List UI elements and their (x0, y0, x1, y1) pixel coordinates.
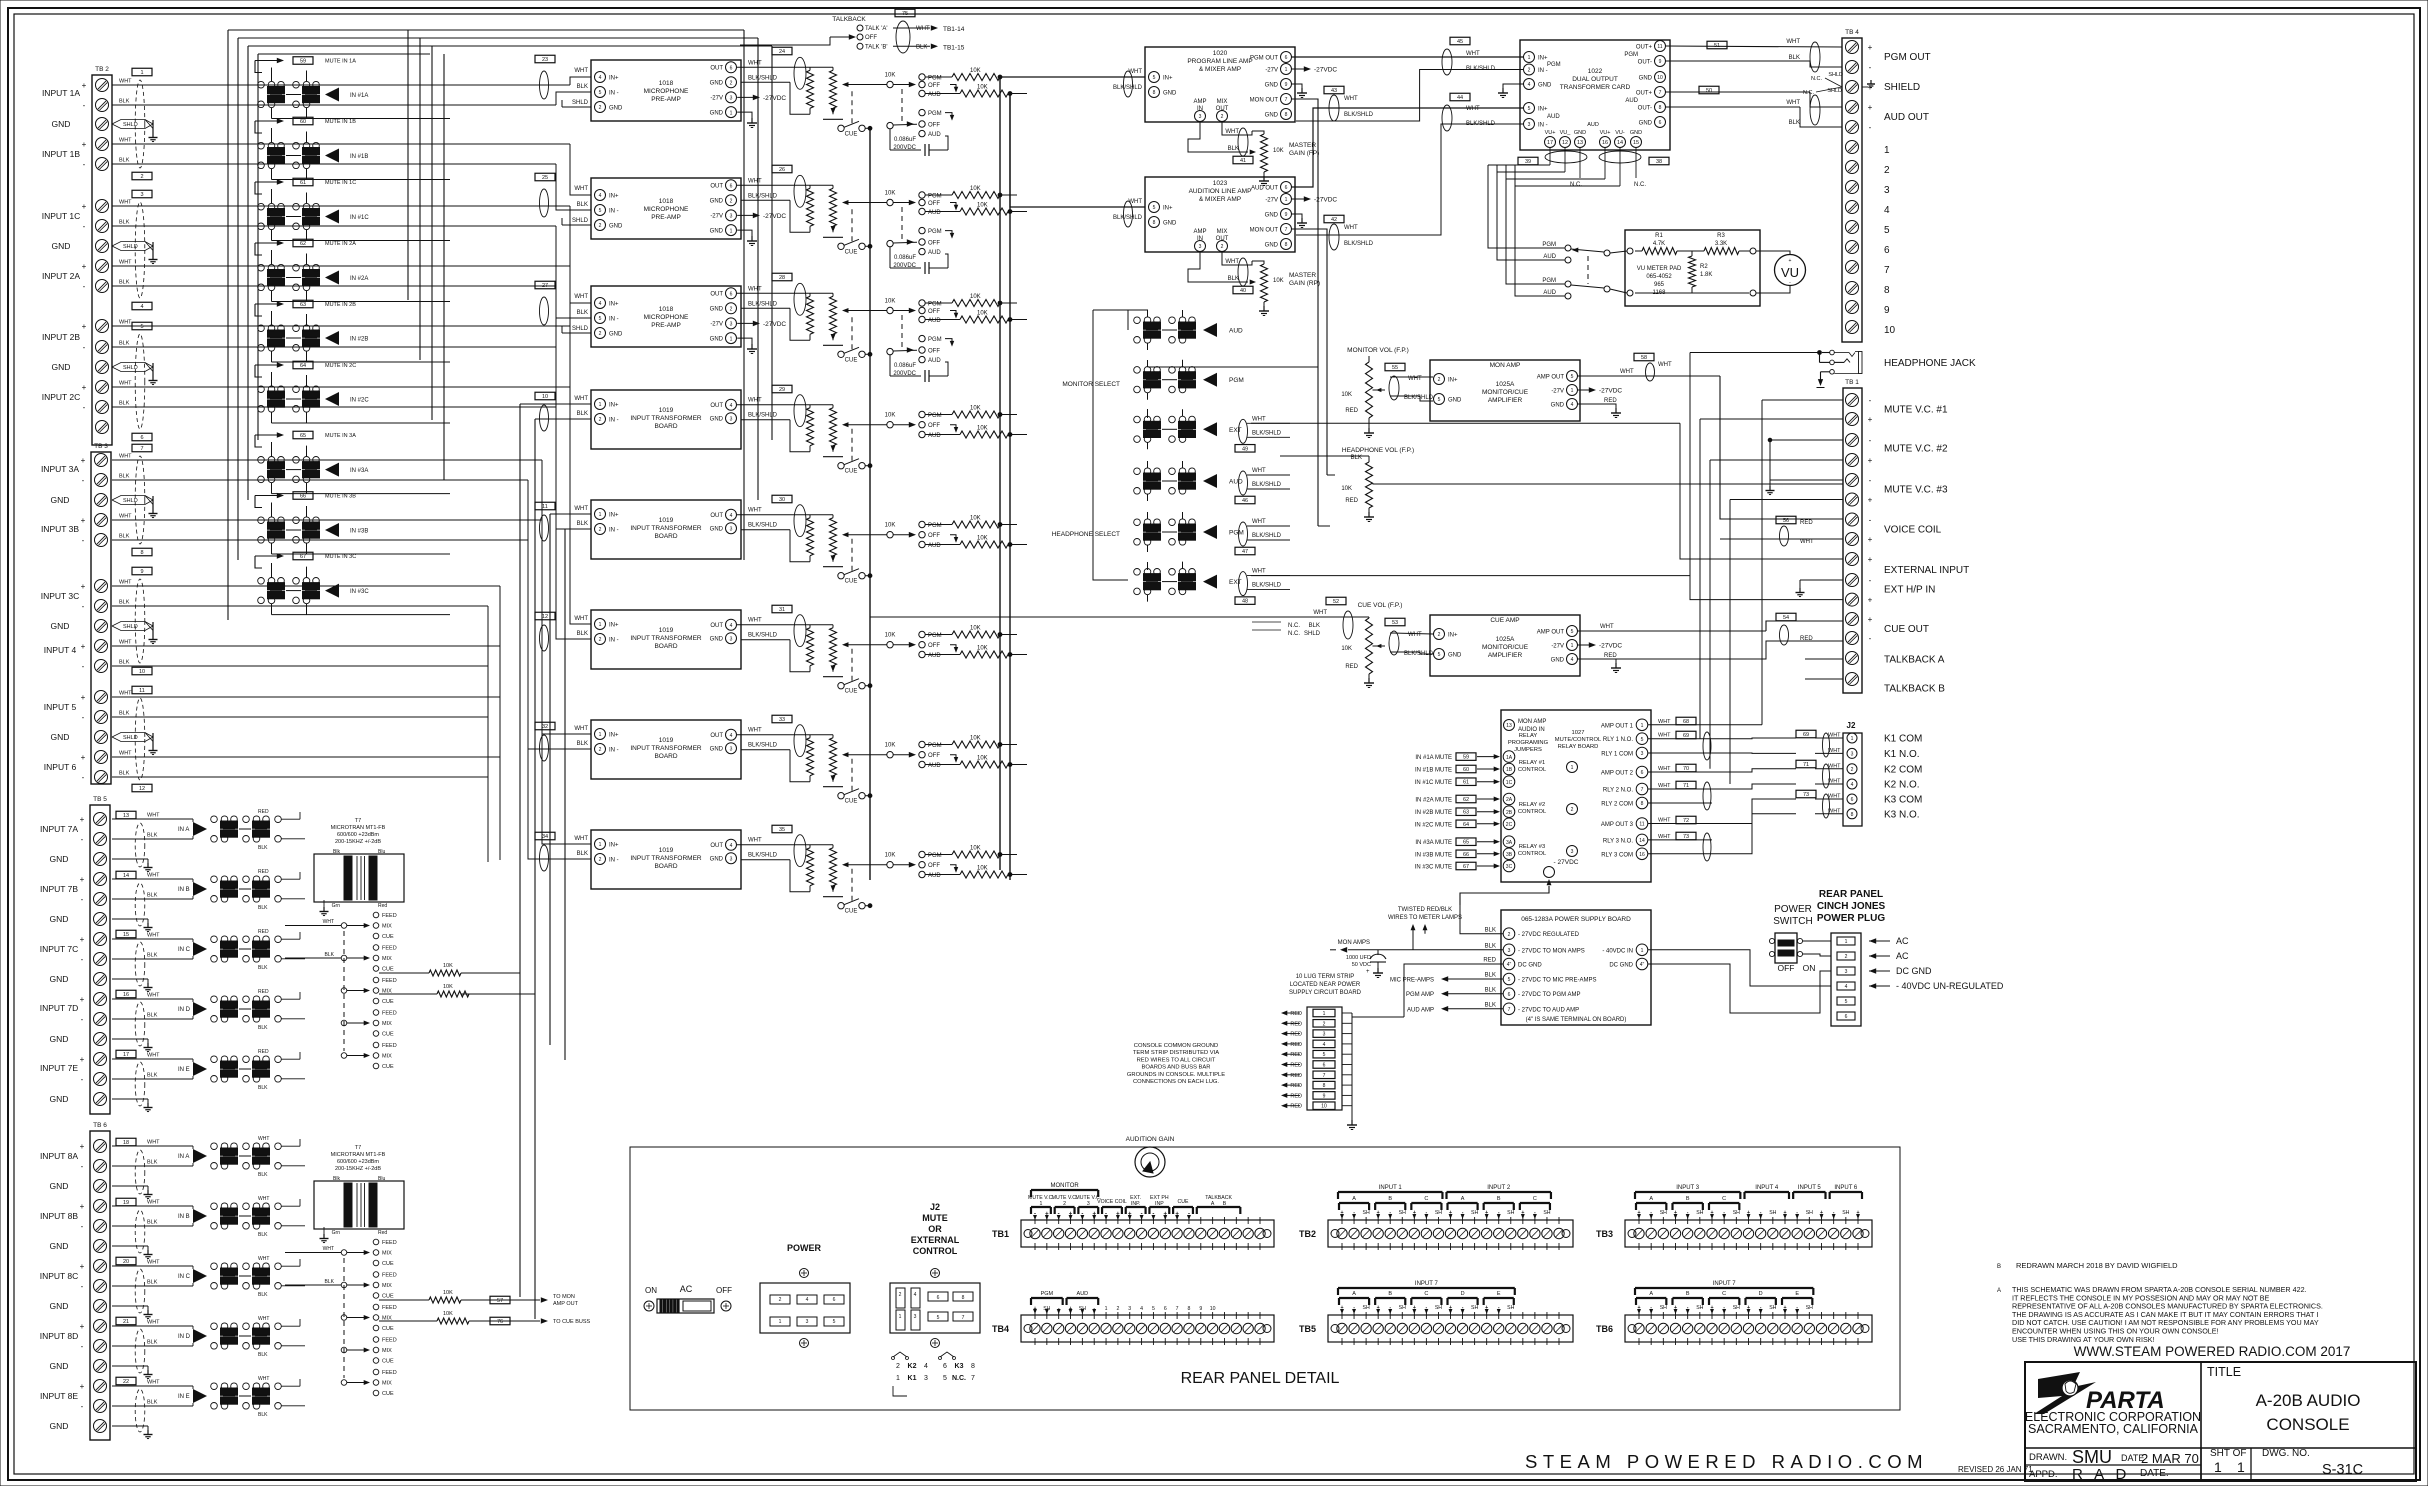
svg-text:5: 5 (599, 90, 602, 96)
svg-text:-: - (83, 403, 86, 412)
svg-text:8: 8 (962, 1295, 965, 1301)
svg-text:BLK: BLK (147, 1340, 158, 1346)
VU meter input selector (1542, 242, 1627, 299)
svg-text:WHT: WHT (748, 728, 762, 734)
svg-text:RED: RED (1290, 1093, 1302, 1099)
svg-text:REAR PANEL DETAIL: REAR PANEL DETAIL (1181, 1370, 1340, 1387)
svg-text:IN+: IN+ (1538, 56, 1548, 62)
mix resistor 10K PGM 31 (925, 626, 1017, 639)
svg-text:PGM: PGM (928, 337, 942, 343)
svg-text:4: 4 (924, 1363, 928, 1370)
svg-text:13: 13 (123, 813, 129, 819)
channel fader pots 24 (737, 67, 887, 119)
svg-text:MICROTRAN MT1-FB: MICROTRAN MT1-FB (331, 1152, 386, 1158)
svg-text:Grn: Grn (332, 903, 341, 909)
title text (2207, 1365, 2360, 1434)
input pad IN C (input 8) (112, 1256, 305, 1298)
svg-text:TB 6: TB 6 (93, 1122, 107, 1129)
svg-text:51: 51 (1714, 43, 1720, 49)
svg-text:-27VDC: -27VDC (1599, 643, 1622, 650)
svg-text:+: + (1868, 43, 1873, 52)
svg-text:10K: 10K (885, 413, 896, 419)
svg-text:75: 75 (902, 11, 908, 17)
svg-text:1B: 1B (1506, 767, 1513, 773)
svg-text:2: 2 (599, 747, 602, 753)
svg-text:17: 17 (123, 1052, 129, 1058)
microphone pre-amp 1018 #1 (572, 60, 741, 121)
svg-text:GAIN (FP): GAIN (FP) (1289, 150, 1319, 157)
svg-text:IN+: IN+ (609, 403, 619, 409)
svg-text:GND: GND (710, 81, 724, 87)
svg-text:BLK: BLK (147, 953, 158, 959)
svg-text:MIC PRE-AMPS: MIC PRE-AMPS (1390, 978, 1434, 984)
svg-text:BLK/SHLD: BLK/SHLD (1252, 533, 1282, 539)
svg-text:5: 5 (1438, 397, 1441, 403)
svg-text:-: - (1869, 396, 1872, 405)
selector switch PGM/OFF/AUD 28 (885, 299, 959, 325)
svg-text:TB 3: TB 3 (94, 443, 108, 450)
svg-text:N.C.: N.C. (1570, 182, 1582, 188)
svg-text:K3 N.O.: K3 N.O. (1884, 809, 1920, 820)
svg-text:CUE: CUE (845, 131, 858, 137)
svg-text:-: - (81, 1222, 84, 1231)
svg-text:6: 6 (1285, 185, 1288, 191)
svg-text:53: 53 (1392, 620, 1398, 626)
svg-text:WHT: WHT (574, 836, 588, 842)
svg-text:AUD: AUD (928, 210, 941, 216)
svg-text:AUD: AUD (928, 653, 941, 659)
svg-text:RELAY #2: RELAY #2 (1519, 802, 1546, 808)
mix resistor 10K PGM 24 (925, 68, 1017, 81)
svg-text:BLK: BLK (577, 411, 588, 417)
voice coil cable 56 (1720, 516, 1843, 546)
svg-text:- 27VDC REGULATED: - 27VDC REGULATED (1518, 932, 1580, 938)
input cable boxes for amp blocks (535, 55, 555, 871)
svg-text:TRANSFORMER CARD: TRANSFORMER CARD (1560, 84, 1631, 91)
svg-text:14: 14 (1639, 838, 1645, 844)
svg-text:3: 3 (730, 746, 733, 752)
svg-text:OUT: OUT (710, 843, 723, 849)
svg-text:INPUT 3: INPUT 3 (1676, 1185, 1700, 1191)
svg-text:1: 1 (1571, 643, 1574, 649)
svg-text:68: 68 (1683, 719, 1689, 725)
pre-amp #2 -27VDC feed (737, 213, 786, 220)
svg-text:4: 4 (914, 1292, 917, 1298)
svg-text:5: 5 (1571, 629, 1574, 635)
audition gain knob (1126, 1136, 1175, 1177)
svg-text:IN+: IN+ (1448, 378, 1458, 384)
mix bus resistors 10K (input 8) (379, 1290, 535, 1324)
svg-text:CUE: CUE (845, 909, 858, 915)
svg-text:OFF: OFF (928, 863, 940, 869)
svg-text:8: 8 (1851, 812, 1854, 818)
svg-text:GND: GND (1448, 398, 1462, 404)
svg-text:+: + (81, 582, 86, 591)
svg-text:TB 1: TB 1 (1845, 379, 1859, 386)
svg-text:CUE: CUE (845, 579, 858, 585)
svg-text:VU-: VU- (1615, 130, 1625, 136)
svg-text:- 27VDC TO MIC PRE-AMPS: - 27VDC TO MIC PRE-AMPS (1518, 978, 1596, 984)
svg-text:INPUT 7C: INPUT 7C (40, 944, 79, 954)
svg-text:BLK/SHLD: BLK/SHLD (748, 633, 778, 639)
input transformer board 1019 #2 (574, 500, 741, 559)
svg-text:OFF: OFF (928, 753, 940, 759)
svg-text:7: 7 (1508, 1007, 1511, 1013)
svg-text:AUD: AUD (928, 873, 941, 879)
svg-text:10K: 10K (885, 523, 896, 529)
svg-text:GND: GND (710, 417, 724, 423)
svg-text:8: 8 (1188, 1306, 1191, 1312)
svg-text:SHLD: SHLD (123, 498, 138, 504)
svg-text:BLK: BLK (119, 401, 130, 407)
channel cable 30 (748, 495, 806, 536)
svg-text:GND: GND (52, 362, 71, 372)
svg-text:+: + (80, 1322, 85, 1331)
svg-text:10K: 10K (885, 299, 896, 305)
svg-text:A: A (1461, 1196, 1465, 1202)
svg-text:3: 3 (1199, 244, 1202, 250)
svg-text:DATE.: DATE. (2140, 1468, 2169, 1479)
svg-text:2: 2 (730, 81, 733, 87)
svg-text:WHT: WHT (119, 640, 132, 646)
svg-text:065-1283A POWER SUPPLY BOARD: 065-1283A POWER SUPPLY BOARD (1521, 916, 1631, 923)
svg-text:5: 5 (599, 316, 602, 322)
svg-text:SWITCH: SWITCH (1773, 916, 1812, 927)
svg-text:SH: SH (1769, 1210, 1776, 1216)
svg-text:BLK: BLK (119, 220, 130, 226)
svg-text:GND: GND (51, 621, 70, 631)
svg-text:TERM STRIP DISTRIBUTED VIA: TERM STRIP DISTRIBUTED VIA (1133, 1050, 1219, 1056)
talkback cable 75 (893, 9, 965, 53)
svg-text:IN B: IN B (178, 887, 190, 893)
svg-text:52: 52 (1333, 599, 1339, 605)
svg-text:CONTROL: CONTROL (1518, 767, 1547, 773)
svg-text:EXTERNAL INPUT: EXTERNAL INPUT (1884, 565, 1969, 576)
svg-text:4: 4 (1845, 984, 1848, 990)
svg-text:10K: 10K (885, 633, 896, 639)
mix resistor 10K AUD 24 (925, 85, 1027, 98)
svg-text:B: B (1686, 1196, 1690, 1202)
svg-text:MIX: MIX (1217, 229, 1228, 235)
svg-text:71: 71 (1803, 762, 1809, 768)
svg-text:CUE: CUE (845, 799, 858, 805)
svg-text:WHT: WHT (1466, 106, 1480, 112)
svg-text:CUE: CUE (382, 934, 394, 940)
svg-text:EXT: EXT (1229, 579, 1242, 586)
svg-text:TB5: TB5 (1299, 1324, 1316, 1334)
svg-text:2: 2 (140, 174, 143, 180)
svg-text:1: 1 (1641, 723, 1644, 729)
svg-text:10: 10 (542, 394, 548, 400)
svg-text:3: 3 (1323, 1032, 1326, 1038)
svg-text:2: 2 (599, 857, 602, 863)
svg-text:GROUNDS IN CONSOLE. MULTIPLE: GROUNDS IN CONSOLE. MULTIPLE (1127, 1072, 1225, 1078)
svg-text:REVISED 26 JAN 71: REVISED 26 JAN 71 (1958, 1465, 2033, 1474)
svg-text:MICROPHONE: MICROPHONE (644, 314, 689, 321)
rear panel J2 mute connector (890, 1202, 980, 1348)
svg-text:SHLD: SHLD (123, 365, 138, 371)
mute jumper box 66 IN #3B (255, 492, 356, 508)
svg-text:WHT: WHT (1344, 225, 1358, 231)
svg-text:+: + (82, 202, 87, 211)
svg-text:INPUT 1A: INPUT 1A (42, 88, 80, 98)
svg-text:10K: 10K (1341, 486, 1352, 492)
svg-text:-27VDC: -27VDC (763, 213, 786, 220)
svg-text:965: 965 (1654, 282, 1665, 288)
svg-text:CUE: CUE (382, 1261, 394, 1267)
channel fader pots 29 (737, 405, 887, 457)
twisted-pair cable symbols left column (135, 80, 145, 1432)
mix resistor 10K AUD 29 (925, 426, 1027, 439)
svg-text:IN+: IN+ (609, 623, 619, 629)
svg-text:MIX: MIX (382, 1348, 392, 1354)
svg-text:WHT: WHT (1786, 100, 1800, 106)
svg-text:RLY 2 COM: RLY 2 COM (1601, 802, 1633, 808)
power supply board 065-1283A (1501, 910, 1651, 1025)
svg-text:-27V: -27V (710, 214, 723, 220)
svg-text:IN E: IN E (178, 1067, 190, 1073)
monitor feed cables 43 42 (1324, 86, 1374, 250)
svg-text:MIX: MIX (382, 1381, 392, 1387)
svg-text:WHT: WHT (574, 294, 588, 300)
svg-text:10K: 10K (885, 73, 896, 79)
svg-text:AC: AC (1896, 951, 1909, 961)
svg-text:2: 2 (1851, 767, 1854, 773)
monitor select cable 48 (1235, 569, 1290, 605)
svg-text:PRE-AMP: PRE-AMP (651, 96, 681, 103)
svg-text:PGM: PGM (928, 633, 942, 639)
svg-text:PGM: PGM (928, 111, 942, 117)
svg-text:2B: 2B (1506, 810, 1513, 816)
svg-text:TB 4: TB 4 (1845, 29, 1859, 36)
svg-text:GND: GND (50, 914, 69, 924)
svg-text:OUT: OUT (710, 184, 723, 190)
selector switch PGM/OFF/AUD 31 (885, 631, 959, 659)
svg-text:OUT: OUT (710, 623, 723, 629)
svg-text:BLK: BLK (1485, 928, 1496, 934)
mix resistor 10K PGM 33 (925, 736, 1017, 749)
svg-text:IN+: IN+ (1448, 633, 1458, 639)
svg-text:5: 5 (1152, 1306, 1155, 1312)
svg-text:INPUT 5: INPUT 5 (44, 702, 77, 712)
svg-text:WHT: WHT (1252, 468, 1266, 474)
svg-text:+: + (80, 1055, 85, 1064)
svg-text:INPUT 7E: INPUT 7E (40, 1063, 78, 1073)
svg-text:2: 2 (599, 417, 602, 423)
svg-text:INPUT 6: INPUT 6 (44, 762, 77, 772)
monitor volume pot (1341, 347, 1433, 438)
svg-text:73: 73 (1803, 792, 1809, 798)
svg-text:R3: R3 (1717, 233, 1725, 239)
svg-text:58: 58 (1641, 355, 1647, 361)
svg-text:TB2: TB2 (1299, 1229, 1316, 1239)
terminal strip TB 5 (40, 796, 110, 1114)
svg-text:CONNECTIONS ON EACH LUG.: CONNECTIONS ON EACH LUG. (1133, 1079, 1219, 1085)
svg-text:30: 30 (779, 497, 785, 503)
svg-text:8: 8 (1285, 112, 1288, 118)
svg-text:8: 8 (1285, 242, 1288, 248)
svg-text:4: 4 (140, 304, 143, 310)
svg-text:WHT: WHT (1600, 624, 1614, 630)
svg-text:AUD: AUD (928, 433, 941, 439)
svg-text:BLK/SHLD: BLK/SHLD (1344, 241, 1374, 247)
svg-text:2: 2 (730, 199, 733, 205)
svg-text:16: 16 (1639, 852, 1645, 858)
svg-text:TB4: TB4 (992, 1324, 1009, 1334)
svg-text:A: A (1352, 1196, 1356, 1202)
svg-text:6: 6 (943, 1363, 947, 1370)
svg-text:RLY 1 N.O.: RLY 1 N.O. (1603, 737, 1633, 743)
svg-text:PGM: PGM (928, 302, 942, 308)
input pad IN D (input 7) (112, 989, 305, 1031)
svg-text:12: 12 (542, 614, 548, 620)
svg-text:D: D (1461, 1291, 1465, 1297)
svg-text:R2: R2 (1700, 264, 1708, 270)
svg-text:9: 9 (1285, 212, 1288, 218)
svg-text:K2 N.O.: K2 N.O. (1884, 780, 1920, 791)
svg-text:3: 3 (1845, 969, 1848, 975)
mute jumper box 62 IN #2A (255, 239, 356, 255)
1020 -27VDC feed (1292, 66, 1337, 73)
power plug external labels (1869, 936, 2004, 991)
svg-text:5: 5 (140, 324, 143, 330)
svg-text:600/600 +23dBm: 600/600 +23dBm (337, 832, 379, 838)
monitor select transformer pair EXT y581.6 (1134, 569, 1242, 595)
svg-text:+: + (80, 935, 85, 944)
svg-text:Red: Red (378, 903, 387, 909)
svg-text:AUD: AUD (928, 132, 941, 138)
svg-text:4: 4 (1528, 82, 1531, 88)
svg-text:GND: GND (50, 1241, 69, 1251)
svg-text:+: + (1868, 596, 1873, 605)
svg-text:8: 8 (1884, 285, 1890, 296)
svg-text:BLK: BLK (119, 660, 130, 666)
svg-text:63: 63 (300, 302, 306, 308)
svg-text:FEED: FEED (382, 1370, 397, 1376)
svg-text:WHT: WHT (574, 186, 588, 192)
svg-text:WHT: WHT (147, 1140, 160, 1146)
svg-text:TO CUE BUSS: TO CUE BUSS (553, 1319, 591, 1325)
svg-text:BLK: BLK (258, 1025, 268, 1031)
svg-text:BLK: BLK (577, 851, 588, 857)
TB5 TB6 wire labels (147, 813, 160, 1406)
svg-text:CUE: CUE (845, 689, 858, 695)
MON AMP -27VDC feed (1578, 387, 1622, 394)
svg-text:SHLD: SHLD (123, 244, 138, 250)
svg-text:FEED: FEED (382, 1305, 397, 1311)
VU meter pad 065-4052 (1625, 230, 1760, 306)
TB3 wire labels (119, 454, 132, 777)
svg-text:B: B (1223, 1201, 1227, 1207)
svg-text:WHT: WHT (119, 514, 132, 520)
dual output transformer card 1022 (1520, 40, 1670, 150)
AUD mix bus (1009, 94, 1011, 881)
svg-text:SH: SH (1363, 1305, 1370, 1311)
svg-text:2A: 2A (1506, 797, 1513, 803)
svg-text:BLK: BLK (119, 600, 130, 606)
TB4 rear labels (1031, 1291, 1216, 1314)
console ground lug strip (1281, 974, 1404, 1130)
svg-text:OUT+: OUT+ (1636, 45, 1653, 51)
svg-text:6: 6 (1508, 992, 1511, 998)
svg-text:TWISTED RED/BLK: TWISTED RED/BLK (1398, 907, 1452, 913)
pre-amp #3 ground (737, 338, 757, 353)
svg-text:CUE: CUE (382, 1391, 394, 1397)
svg-text:3A: 3A (1506, 840, 1513, 846)
svg-text:SH: SH (1806, 1305, 1813, 1311)
svg-text:IN+: IN+ (1538, 107, 1548, 113)
svg-text:BLK/SHLD: BLK/SHLD (1344, 112, 1374, 118)
CUE bus (869, 128, 871, 880)
svg-text:WHT: WHT (147, 1260, 160, 1266)
svg-text:MUTE IN 1C: MUTE IN 1C (325, 180, 356, 186)
svg-text:BLK: BLK (119, 771, 130, 777)
svg-text:OFF: OFF (928, 423, 940, 429)
svg-text:MUTE V.C. #3: MUTE V.C. #3 (1884, 485, 1948, 496)
svg-text:INPUT 4: INPUT 4 (1755, 1185, 1779, 1191)
svg-text:10K: 10K (970, 294, 981, 300)
svg-text:-: - (1869, 436, 1872, 445)
selector switch PGM/OFF/AUD 24 (885, 73, 959, 99)
svg-text:JUMPERS: JUMPERS (1514, 747, 1542, 753)
svg-text:1: 1 (1641, 948, 1644, 954)
CUE AMP 1025A amplifier (1430, 615, 1580, 676)
svg-text:13: 13 (1506, 723, 1512, 729)
power switch (1769, 904, 1815, 973)
svg-text:5: 5 (1571, 374, 1574, 380)
svg-text:2: 2 (1508, 932, 1511, 938)
line amp 1023 (1113, 177, 1295, 252)
svg-text:AUD: AUD (1229, 479, 1243, 486)
svg-text:RED: RED (1290, 1032, 1302, 1038)
svg-text:5: 5 (1153, 75, 1156, 81)
svg-text:AUD: AUD (928, 543, 941, 549)
svg-text:RED: RED (1290, 1073, 1302, 1079)
svg-text:FEED: FEED (382, 1011, 397, 1017)
svg-text:2: 2 (599, 105, 602, 111)
svg-text:+: + (82, 81, 87, 90)
svg-text:MUTE IN 3B: MUTE IN 3B (325, 494, 356, 500)
svg-text:K1 COM: K1 COM (1884, 734, 1922, 745)
channel fader pots 26 (737, 185, 887, 237)
svg-text:SH: SH (1363, 1210, 1370, 1216)
svg-text:MUTE IN 2A: MUTE IN 2A (325, 241, 356, 247)
input wires TB2 TB3 to amplifier boards (112, 77, 591, 862)
terminal strip TB 1 (1843, 379, 1969, 695)
svg-text:B: B (1388, 1196, 1392, 1202)
svg-text:8: 8 (1659, 105, 1662, 111)
power supply left wires (1330, 905, 1503, 1017)
svg-text:B: B (1388, 1291, 1392, 1297)
mute relay transformer pair IN #3C (258, 578, 370, 604)
svg-text:WHT: WHT (1252, 519, 1266, 525)
monitor select transformer pair AUD y481 (1134, 468, 1243, 494)
svg-text:6: 6 (1884, 245, 1890, 256)
svg-text:MUTE IN 1A: MUTE IN 1A (325, 59, 356, 65)
svg-text:5: 5 (1641, 737, 1644, 743)
svg-text:WHT: WHT (1658, 733, 1671, 739)
svg-text:OFF: OFF (928, 241, 940, 247)
svg-text:BLK: BLK (577, 202, 588, 208)
svg-text:INPUT 1B: INPUT 1B (42, 149, 80, 159)
svg-text:28: 28 (779, 275, 785, 281)
svg-text:1: 1 (730, 228, 733, 234)
svg-text:SH: SH (1507, 1210, 1514, 1216)
svg-text:- 40VDC UN-REGULATED: - 40VDC UN-REGULATED (1896, 981, 2004, 991)
svg-text:IN #1A: IN #1A (350, 93, 368, 99)
svg-text:8: 8 (1323, 1083, 1326, 1089)
svg-text:BLK: BLK (258, 1085, 268, 1091)
